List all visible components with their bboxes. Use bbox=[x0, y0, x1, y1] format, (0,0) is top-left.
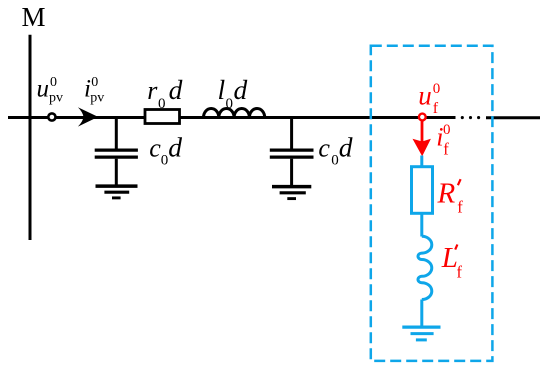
label L_f' bbox=[441, 242, 463, 282]
dashed fault box bbox=[371, 46, 493, 361]
svg-text:u: u bbox=[418, 80, 432, 110]
svg-text:f: f bbox=[457, 263, 463, 282]
svg-text:0: 0 bbox=[226, 96, 234, 112]
svg-text:0: 0 bbox=[331, 153, 339, 169]
wire main horizontal bbox=[8, 116, 456, 119]
ground G1 bbox=[96, 186, 138, 198]
current arrow i_pv bbox=[78, 107, 98, 126]
ground Gf (blue) bbox=[402, 327, 440, 340]
svg-text:l: l bbox=[218, 74, 226, 105]
inductor l0d bbox=[204, 108, 265, 117]
label u_pv^0 bbox=[37, 75, 64, 105]
svg-text:R: R bbox=[437, 177, 456, 209]
bus M vertical line bbox=[29, 35, 32, 240]
svg-text:0: 0 bbox=[433, 81, 441, 97]
dots continuation bbox=[461, 116, 480, 119]
svg-text:f: f bbox=[433, 100, 439, 117]
svg-text:c: c bbox=[149, 134, 161, 163]
node u_f (red open circle) bbox=[419, 114, 426, 121]
resistor Rf box bbox=[412, 167, 433, 214]
label l_0 d bbox=[218, 74, 248, 112]
resistor r0d box bbox=[145, 110, 180, 124]
capacitor C2 wire bottom bbox=[290, 159, 293, 187]
svg-text:0: 0 bbox=[161, 153, 169, 169]
ground G2 bbox=[272, 187, 311, 199]
wire right segment after dots bbox=[486, 116, 540, 119]
svg-text:d: d bbox=[169, 74, 183, 105]
capacitor C1 branch wire top bbox=[115, 118, 118, 149]
capacitor C2 plates bbox=[270, 149, 314, 152]
svg-text:0: 0 bbox=[443, 122, 451, 138]
wire Rf to Lf bbox=[420, 213, 423, 236]
svg-text:0: 0 bbox=[158, 96, 166, 112]
label c_0 d (second) bbox=[318, 132, 352, 169]
wire Lf to ground bbox=[420, 300, 423, 328]
svg-text:c: c bbox=[318, 134, 330, 163]
svg-text:0: 0 bbox=[91, 75, 98, 90]
label i_f^0 bbox=[436, 122, 450, 159]
label r_0 d bbox=[147, 74, 182, 112]
capacitor C1 plates bbox=[95, 149, 138, 152]
wire arrow tip to Rf bbox=[420, 156, 423, 168]
svg-text:d: d bbox=[168, 132, 182, 163]
label i_pv^0 bbox=[84, 75, 104, 105]
svg-text:0: 0 bbox=[50, 75, 57, 90]
svg-text:f: f bbox=[457, 198, 463, 217]
svg-text:d: d bbox=[339, 132, 353, 163]
label c_0 d (first) bbox=[149, 132, 182, 169]
svg-text:pv: pv bbox=[90, 90, 104, 105]
svg-text:f: f bbox=[443, 140, 449, 159]
capacitor C1 wire bottom bbox=[115, 159, 118, 186]
fault current arrow i_f bbox=[421, 122, 424, 143]
svg-text:d: d bbox=[234, 74, 248, 105]
svg-text:r: r bbox=[147, 76, 158, 105]
node u_pv (open circle) bbox=[48, 113, 55, 120]
svg-text:pv: pv bbox=[49, 90, 63, 105]
label R_f' bbox=[437, 177, 464, 216]
capacitor C2 branch wire top bbox=[290, 118, 293, 149]
svg-text:M: M bbox=[22, 2, 46, 32]
svg-text:u: u bbox=[37, 76, 50, 103]
inductor Lf coil bbox=[418, 236, 432, 299]
label u_f^0 bbox=[418, 80, 440, 117]
